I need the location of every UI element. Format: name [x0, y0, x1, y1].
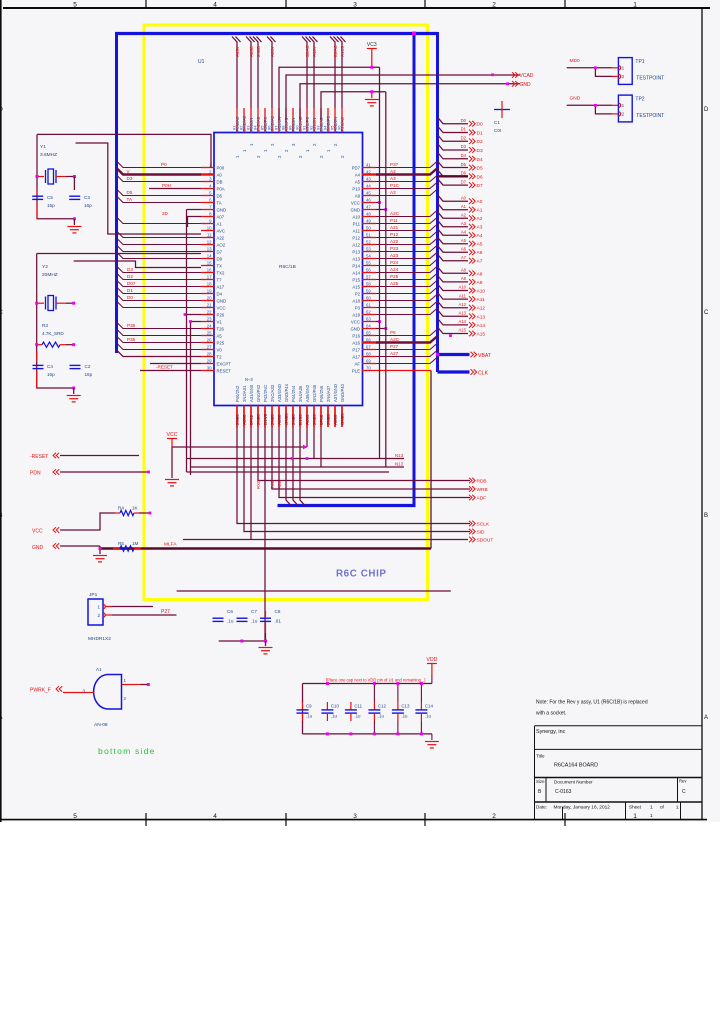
svg-text:21: 21 — [207, 302, 212, 307]
svg-text:66: 66 — [366, 337, 371, 342]
svg-text:A14: A14 — [477, 323, 486, 329]
svg-text:24: 24 — [207, 323, 212, 328]
svg-text:A4: A4 — [461, 229, 467, 234]
svg-text:A2: A2 — [390, 169, 396, 174]
wire Y2 right branch — [73, 303, 75, 345]
svg-text:D: D — [704, 107, 709, 113]
svg-text:50: 50 — [366, 225, 371, 230]
rotated red net labels on top verticals — [235, 45, 345, 57]
title block lines — [535, 726, 703, 820]
border zone numbers top — [73, 2, 637, 9]
svg-text:16: 16 — [207, 267, 212, 272]
svg-text:P0A: P0A — [217, 186, 225, 191]
svg-text:A05C: A05C — [249, 46, 254, 57]
capacitor C7 — [237, 617, 248, 619]
svg-text:Note: For the Rev y assy, U1 (: Note: For the Rev y assy, U1 (R6C/1B) is… — [536, 700, 648, 706]
svg-text:A3: A3 — [390, 176, 396, 181]
svg-text:A18: A18 — [352, 298, 360, 303]
ground bottom-left — [171, 447, 173, 478]
svg-text:GND: GND — [217, 207, 227, 212]
svg-text:D5: D5 — [217, 193, 223, 198]
wire: right power vertical 2 — [385, 92, 387, 467]
svg-text:GND: GND — [520, 82, 532, 88]
svg-text:A6: A6 — [461, 246, 467, 251]
svg-text:TX: TX — [217, 263, 223, 268]
capacitor C2 — [70, 364, 81, 366]
svg-text:20MHZ: 20MHZ — [42, 272, 58, 278]
net label VBAT — [471, 352, 477, 358]
wire bundle: top pin verticals to blue bus — [232, 37, 346, 109]
svg-text:PLE: PLE — [352, 368, 360, 373]
svg-text:P10: P10 — [352, 186, 360, 191]
svg-text:P24: P24 — [390, 260, 399, 265]
testpoint TP1 — [618, 58, 632, 85]
svg-text:Synergy, inc: Synergy, inc — [536, 729, 566, 735]
svg-text:CLK: CLK — [478, 371, 489, 377]
svg-text:R5: R5 — [118, 541, 124, 546]
capacitor C4 — [36, 352, 38, 362]
svg-text:RXD: RXD — [256, 480, 261, 489]
svg-text:D1: D1 — [477, 130, 483, 136]
svg-text:GND: GND — [350, 326, 360, 331]
net labels: data bus D0-D7 ports — [461, 118, 483, 189]
svg-text:A4: A4 — [477, 233, 483, 239]
svg-text:R4: R4 — [118, 506, 124, 511]
svg-text:A31/GN0: A31/GN0 — [249, 384, 254, 402]
ground symbol top — [371, 92, 373, 98]
svg-text:16p: 16p — [47, 203, 55, 208]
svg-text:AN-08: AN-08 — [94, 722, 108, 728]
svg-text:C11: C11 — [354, 704, 362, 709]
svg-text:A11: A11 — [477, 297, 486, 303]
svg-text:VDD: VDD — [426, 657, 437, 663]
svg-text:27: 27 — [207, 344, 212, 349]
svg-text:D9: D9 — [217, 256, 223, 261]
svg-text:P0: P0 — [161, 162, 167, 167]
svg-text:A3: A3 — [461, 221, 467, 226]
border zone ticks top — [145, 0, 147, 8]
svg-text:P2: P2 — [355, 291, 361, 296]
svg-text:53: 53 — [366, 246, 371, 251]
svg-text:B: B — [704, 513, 708, 519]
wire: y447 with arrow — [171, 444, 173, 447]
svg-text:A15: A15 — [459, 328, 467, 333]
svg-text:VCC: VCC — [167, 432, 178, 438]
svg-text:A050: A050 — [277, 414, 282, 425]
svg-text:C: C — [704, 310, 709, 316]
red net labels on right wires — [390, 162, 400, 356]
svg-text:82: 82 — [239, 125, 244, 130]
wire: SODT long horizontal — [183, 539, 468, 541]
wire: VCAD rail y75 — [286, 75, 520, 120]
svg-text:P27: P27 — [161, 609, 170, 615]
svg-text:V1: V1 — [217, 319, 223, 324]
capacitor C13 — [397, 702, 399, 710]
svg-text:P46/2N6: P46/2N6 — [319, 385, 324, 402]
svg-text:A22: A22 — [217, 235, 225, 240]
svg-text:T26: T26 — [217, 326, 225, 331]
wire: right VCC/GND rows to power verticals — [376, 202, 380, 204]
wire: y467 — [191, 466, 405, 468]
wire: long horizontal y591 — [177, 590, 451, 592]
svg-text:81: 81 — [232, 125, 237, 130]
svg-text:1: 1 — [650, 805, 653, 811]
svg-text:16p: 16p — [47, 372, 55, 377]
svg-text:A17: A17 — [352, 354, 360, 359]
capacitor C11 — [350, 702, 352, 710]
svg-text:A5: A5 — [461, 238, 467, 243]
svg-text:A7: A7 — [477, 259, 483, 265]
svg-text:A0: A0 — [477, 199, 483, 205]
svg-text:U1: U1 — [198, 59, 205, 65]
svg-text:VCC: VCC — [351, 200, 360, 205]
svg-text:41: 41 — [366, 162, 371, 167]
svg-text:N–3: N–3 — [245, 377, 253, 382]
wire gate output — [122, 684, 141, 686]
svg-text:P16: P16 — [352, 333, 360, 338]
svg-text:VCC: VCC — [351, 319, 360, 324]
svg-text:VC3: VC3 — [367, 42, 377, 48]
wire: Y1 top wire to pin row 1 area — [37, 134, 211, 167]
svg-text:TP1: TP1 — [635, 59, 644, 65]
svg-text:93: 93 — [316, 125, 321, 130]
svg-text:AF: AF — [355, 361, 361, 366]
svg-text:Size: Size — [536, 779, 545, 784]
svg-text:C13: C13 — [401, 704, 410, 709]
svg-text:P12: P12 — [352, 235, 360, 240]
svg-text:C0I: C0I — [494, 128, 501, 133]
svg-text:-RESET: -RESET — [30, 454, 48, 460]
svg-text:45: 45 — [366, 190, 371, 195]
resistor R4 — [115, 512, 120, 514]
svg-text:10: 10 — [207, 225, 212, 230]
svg-text:70: 70 — [366, 365, 371, 370]
svg-text:13: 13 — [207, 246, 212, 251]
resistor R5 — [113, 548, 120, 550]
svg-text:A13: A13 — [352, 256, 360, 261]
svg-text:A14: A14 — [459, 319, 467, 324]
wire and ground Y2 — [72, 387, 75, 390]
svg-text:TESTPOINT: TESTPOINT — [636, 113, 664, 119]
svg-text:26: 26 — [207, 337, 212, 342]
svg-text:A10: A10 — [352, 214, 360, 219]
svg-text:A1: A1 — [477, 208, 483, 214]
svg-text:A9: A9 — [477, 280, 483, 286]
svg-text:2N80: 2N80 — [291, 414, 296, 425]
svg-text:T7: T7 — [217, 277, 223, 282]
svg-text:A07: A07 — [217, 214, 225, 219]
U1 left pin numbers — [207, 162, 212, 370]
svg-text:RDB: RDB — [477, 479, 487, 485]
wire: left row4 P0H — [149, 188, 201, 190]
svg-text:D7: D7 — [477, 183, 483, 189]
svg-text:D3: D3 — [127, 176, 133, 181]
svg-text:R6C CHIP: R6C CHIP — [336, 569, 387, 580]
svg-text:A050: A050 — [242, 414, 247, 425]
svg-text:A33/GND: A33/GND — [277, 384, 282, 402]
svg-text:88: 88 — [281, 125, 286, 130]
svg-text:RESET: RESET — [217, 368, 232, 373]
svg-text:17: 17 — [207, 274, 212, 279]
svg-text:.1u: .1u — [401, 714, 408, 719]
svg-text:89: 89 — [288, 125, 293, 130]
svg-text:D4: D4 — [461, 153, 467, 158]
svg-text:A2C: A2C — [390, 337, 400, 342]
svg-text:A12: A12 — [352, 242, 360, 247]
svg-text:68: 68 — [366, 351, 371, 356]
svg-text:3.6MHZ: 3.6MHZ — [40, 152, 57, 158]
svg-text:A10V: A10V — [312, 46, 317, 57]
svg-text:1K: 1K — [132, 506, 139, 511]
U1 right pin stubs — [362, 168, 376, 371]
svg-text:TA: TA — [217, 200, 222, 205]
svg-text:96: 96 — [337, 125, 342, 130]
svg-text:3DAC: 3DAC — [305, 45, 310, 57]
svg-text:2N0D: 2N0D — [256, 46, 261, 57]
border frame — [1, 0, 710, 822]
svg-text:55: 55 — [366, 260, 371, 265]
wire bundle: U1 bottom staircase — [237, 427, 470, 540]
svg-text:54: 54 — [366, 253, 371, 258]
svg-text:85: 85 — [260, 125, 265, 130]
svg-text:1: 1 — [633, 2, 637, 9]
svg-text:A5: A5 — [477, 242, 483, 248]
svg-text:C4: C4 — [47, 364, 53, 369]
svg-text:DB: DB — [217, 179, 223, 184]
wire: Y1 right branch down — [73, 177, 75, 191]
svg-text:0F50: 0F50 — [319, 414, 324, 425]
svg-text:D4: D4 — [477, 157, 483, 163]
svg-text:2N80: 2N80 — [256, 414, 261, 425]
svg-text:47: 47 — [366, 204, 371, 209]
svg-text:83: 83 — [246, 125, 251, 130]
svg-text:2D: 2D — [162, 211, 169, 216]
svg-text:.01: .01 — [275, 619, 282, 624]
svg-text:WRB: WRB — [477, 487, 488, 493]
svg-text:D0: D0 — [127, 295, 133, 300]
svg-text:A8: A8 — [477, 271, 483, 277]
wires JP1 — [106, 606, 113, 608]
svg-text:A7: A7 — [461, 255, 467, 260]
svg-text:A055: A055 — [305, 414, 310, 425]
svg-text:Date:: Date: — [536, 805, 547, 810]
svg-text:VBAT: VBAT — [478, 353, 492, 359]
svg-text:GND/P40: GND/P40 — [340, 383, 345, 402]
junction on outer bus — [436, 353, 439, 356]
svg-text:A12: A12 — [477, 306, 486, 312]
svg-text:A35/GN2: A35/GN2 — [305, 384, 310, 402]
wire bundle: U1 right pin wires to outer bus — [376, 161, 438, 364]
svg-text:P13: P13 — [352, 249, 360, 254]
svg-text:Y1: Y1 — [40, 144, 46, 150]
svg-text:TESTPOINT: TESTPOINT — [636, 75, 664, 81]
svg-text:GN85: GN85 — [340, 413, 345, 425]
svg-text:VCAD: VCAD — [520, 73, 534, 79]
svg-text:2: 2 — [492, 2, 496, 9]
svg-text:A19: A19 — [352, 312, 360, 317]
svg-text:D07: D07 — [127, 281, 136, 286]
svg-text:GND: GND — [350, 207, 360, 212]
wire: RESET row from bus area — [140, 370, 201, 372]
svg-text:D2: D2 — [461, 135, 467, 140]
svg-text:P17: P17 — [352, 347, 360, 352]
svg-text:MD0: MD0 — [570, 58, 580, 64]
junction dot below A15 — [449, 334, 452, 337]
blue bus: outer right vertical — [436, 32, 439, 372]
U1 bottom pin stubs — [237, 406, 342, 428]
svg-text:P42/2NC: P42/2NC — [263, 385, 268, 402]
svg-text:57: 57 — [366, 274, 371, 279]
svg-text:95: 95 — [330, 125, 335, 130]
net labels: address bus A0-A7 ports — [461, 195, 483, 264]
svg-text:P37: P37 — [390, 162, 399, 167]
crystal Y2 circuit frame wires — [36, 254, 38, 304]
svg-text:A13: A13 — [477, 314, 486, 320]
svg-text:A: A — [704, 715, 708, 721]
svg-text:3: 3 — [353, 813, 357, 820]
svg-text:A: A — [0, 715, 3, 721]
svg-text:ADF: ADF — [477, 496, 487, 502]
svg-text:69: 69 — [366, 358, 371, 363]
wire: MLFA vertical — [430, 371, 432, 549]
svg-text:A9: A9 — [461, 276, 467, 281]
svg-text:V0: V0 — [217, 347, 223, 352]
wire bundle: U1 left pin wires with bus taps — [117, 161, 202, 350]
svg-text:2N85: 2N85 — [270, 414, 275, 425]
svg-text:D1V5: D1V5 — [263, 413, 268, 425]
svg-text:A21: A21 — [390, 225, 399, 230]
svg-text:.1u: .1u — [425, 714, 432, 719]
svg-text:D1: D1 — [461, 127, 467, 132]
wire: bold MLFA — [100, 547, 431, 550]
svg-text:D6: D6 — [477, 174, 483, 180]
svg-text:A055: A055 — [333, 414, 338, 425]
svg-text:28: 28 — [207, 351, 212, 356]
rotated red labels on staircase — [256, 480, 282, 489]
svg-text:.1u: .1u — [227, 619, 234, 624]
svg-text:P6: P6 — [390, 330, 396, 335]
svg-text:P25: P25 — [390, 274, 399, 279]
wire: Y2 top wire to row 13 — [37, 253, 201, 255]
U1 top pin numbers (rotated) — [232, 125, 342, 130]
svg-text:MHDR1X2: MHDR1X2 — [88, 636, 111, 642]
svg-text:19: 19 — [207, 288, 212, 293]
svg-text:AO2: AO2 — [217, 242, 226, 247]
svg-text:92: 92 — [309, 125, 314, 130]
svg-text:B: B — [0, 513, 3, 519]
ground Y1 — [67, 227, 81, 233]
svg-text:Document Number: Document Number — [554, 780, 593, 785]
svg-text:GND: GND — [32, 545, 44, 551]
svg-text:62: 62 — [366, 309, 371, 314]
svg-text:C6: C6 — [227, 609, 233, 614]
svg-text:D5: D5 — [127, 190, 133, 195]
svg-text:A4: A4 — [355, 172, 361, 177]
svg-text:D2: D2 — [127, 274, 133, 279]
svg-text:P23: P23 — [390, 246, 399, 251]
net labels: address bus A8-A15 ports — [459, 268, 486, 338]
svg-text:SCLK: SCLK — [477, 522, 490, 528]
capacitor C5 — [36, 190, 38, 195]
svg-text:A6: A6 — [477, 250, 483, 256]
U1 bottom pin names (rotated) — [235, 383, 345, 402]
svg-text:D1: D1 — [127, 288, 133, 293]
U1 top pin stubs — [237, 108, 342, 133]
svg-text:2N85: 2N85 — [235, 414, 240, 425]
wire: rail y91.7 — [321, 92, 386, 120]
svg-text:P00: P00 — [217, 165, 225, 170]
svg-text:GN2/P46: GN2/P46 — [312, 384, 317, 402]
svg-text:2N6/A37: 2N6/A37 — [326, 385, 331, 402]
svg-text:4: 4 — [213, 813, 217, 820]
wire: VCC rail y67 — [279, 67, 380, 120]
svg-text:SID: SID — [477, 530, 486, 536]
svg-text:A10: A10 — [477, 289, 486, 295]
svg-text:T2: T2 — [217, 354, 223, 359]
svg-text:94: 94 — [323, 125, 328, 130]
svg-text:A17: A17 — [217, 284, 225, 289]
svg-text:A15: A15 — [477, 332, 486, 338]
junction dot VCC rail — [370, 66, 373, 69]
cap bank rails — [303, 683, 432, 685]
border zone ticks bottom — [145, 813, 147, 826]
junction dots right power verticals — [378, 201, 381, 204]
svg-text:GND: GND — [217, 298, 227, 303]
svg-text:61: 61 — [366, 302, 371, 307]
svg-text:A5: A5 — [355, 179, 361, 184]
svg-text:A13: A13 — [459, 311, 467, 316]
svg-text:A9: A9 — [355, 193, 361, 198]
svg-text:1: 1 — [633, 813, 637, 820]
svg-text:A1: A1 — [96, 667, 102, 672]
svg-text:22: 22 — [207, 309, 212, 314]
capacitor C14 — [420, 702, 422, 710]
ground Y2 — [67, 396, 81, 402]
svg-text:N13: N13 — [395, 462, 404, 467]
svg-text:GN85: GN85 — [284, 413, 289, 425]
svg-text:A22: A22 — [390, 239, 399, 244]
svg-text:P15: P15 — [352, 277, 360, 282]
svg-text:C12: C12 — [378, 704, 387, 709]
wire: right power vertical 1 — [379, 67, 381, 458]
svg-text:D7: D7 — [461, 179, 467, 184]
wire under C6-C8 — [219, 640, 266, 642]
svg-text:A2: A2 — [477, 216, 483, 222]
svg-text:A15V: A15V — [235, 46, 240, 57]
svg-text:A20V: A20V — [270, 46, 275, 57]
ground under cap bank — [431, 734, 433, 740]
blue bus: inner right vertical — [413, 32, 416, 506]
svg-text:.1u: .1u — [251, 619, 258, 624]
svg-text:42: 42 — [366, 169, 371, 174]
svg-text:D3: D3 — [127, 267, 133, 272]
U1 right pin numbers — [366, 162, 371, 370]
svg-text:C8: C8 — [275, 609, 281, 614]
capacitor C1 (vertical) — [494, 109, 510, 111]
svg-text:2N85: 2N85 — [312, 414, 317, 425]
wire: left row 27 from bus — [117, 350, 202, 357]
svg-text:C-0163: C-0163 — [555, 789, 572, 795]
border zone letters left/right — [0, 107, 709, 721]
svg-text:P36: P36 — [127, 323, 136, 328]
svg-text:4: 4 — [213, 2, 217, 9]
svg-text:P40/2N2: P40/2N2 — [235, 385, 240, 402]
crystal Y1 circuit frame wires — [36, 134, 38, 176]
svg-text:TX2: TX2 — [217, 270, 225, 275]
svg-text:D2AC: D2AC — [333, 45, 338, 57]
bold segment on D6 wire — [438, 175, 469, 177]
svg-text:EXCPT: EXCPT — [217, 361, 232, 366]
